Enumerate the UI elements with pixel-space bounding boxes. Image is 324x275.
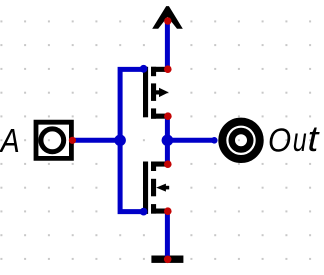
svg-text:t: t	[308, 118, 320, 159]
svg-text:O: O	[268, 122, 291, 159]
svg-text:A: A	[0, 122, 20, 159]
svg-text:u: u	[293, 122, 307, 159]
